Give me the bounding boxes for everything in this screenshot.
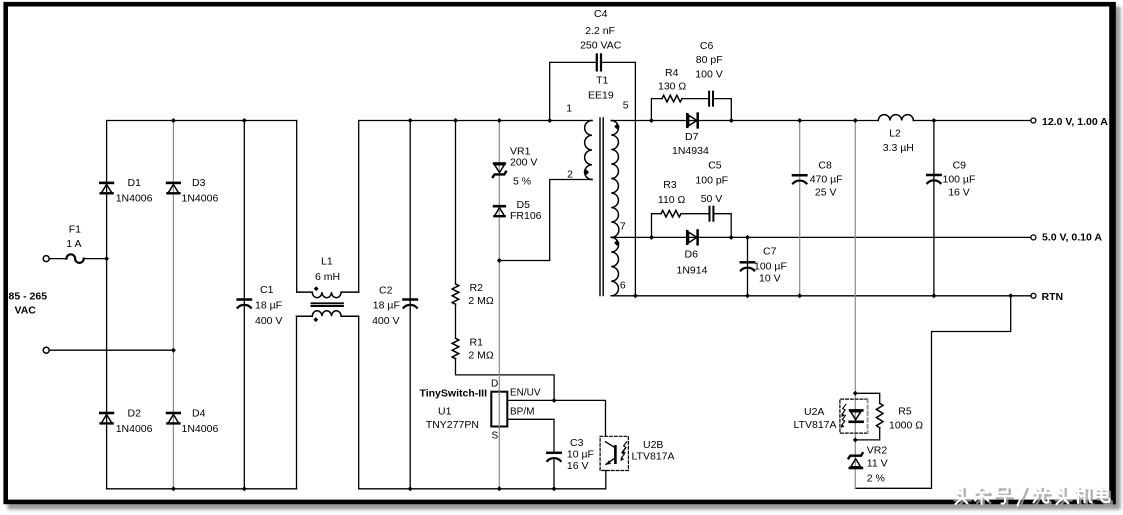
svg-text:250 VAC: 250 VAC: [580, 40, 622, 52]
node: RTN rail at C8: [797, 293, 802, 298]
zener VR1: [493, 164, 506, 178]
wire: EN/UV pin wire: [507, 400, 605, 436]
svg-text:2 MΩ: 2 MΩ: [468, 295, 494, 307]
svg-text:D: D: [491, 379, 498, 390]
wire: primary top rail right segment: [359, 120, 592, 122]
svg-text:VR2: VR2: [867, 445, 888, 457]
wire: RTN rail pin6 to terminal: [611, 295, 1031, 297]
svg-text:1N4006: 1N4006: [116, 193, 153, 205]
svg-text:1N4934: 1N4934: [672, 145, 709, 157]
wire: R5 bottom link: [855, 428, 879, 440]
svg-text:VAC: VAC: [15, 305, 37, 317]
wire: bottom rail segment B: [359, 488, 606, 490]
choke L1 core: [312, 303, 343, 306]
node: 5V rail at C7: [745, 235, 750, 240]
svg-text:C8: C8: [818, 160, 832, 172]
node: 12V rail at C8: [797, 118, 802, 123]
resistor R3: [661, 210, 681, 217]
wire: primary top rail left segment: [107, 120, 297, 122]
diode D4: [167, 413, 180, 423]
node: fuse to bridge: [104, 256, 109, 261]
wire: L1 left vertical bottom: [296, 316, 298, 489]
output terminal 12V: [1031, 118, 1036, 123]
wire: 12V rail L2 to terminal: [913, 120, 1031, 122]
svg-text:200 V: 200 V: [510, 157, 537, 169]
wire: R4 to C6 link: [682, 98, 708, 100]
transformer T1 core: [600, 118, 603, 296]
capacitor C3: [547, 453, 560, 461]
wire: C4 left leg: [550, 62, 596, 120]
svg-text:C6: C6: [700, 40, 714, 52]
svg-text:RTN: RTN: [1042, 291, 1064, 303]
node: clamp D5 bottom: [497, 258, 502, 263]
wire: L1 right vertical bottom: [358, 316, 360, 489]
svg-text:6 mH: 6 mH: [315, 271, 340, 283]
wire: input neutral to D3 D4 column: [49, 349, 173, 351]
svg-text:1000 Ω: 1000 Ω: [889, 420, 923, 432]
wire: D6 snubber loop: [652, 214, 662, 238]
diode D6: [687, 231, 697, 245]
svg-text:5.0 V, 0.10 A: 5.0 V, 0.10 A: [1042, 232, 1102, 244]
choke L1 polarity dots: [313, 286, 318, 322]
diode D7: [687, 114, 697, 128]
svg-text:10 V: 10 V: [759, 273, 781, 285]
svg-text:R1: R1: [470, 337, 484, 349]
svg-text:100 V: 100 V: [695, 69, 722, 81]
node: bottom rail at C2: [408, 486, 413, 491]
wire: D1 D2 column: [106, 121, 108, 489]
inductor L2: [878, 115, 913, 121]
resistor R2: [452, 284, 459, 304]
svg-text:R4: R4: [665, 67, 679, 79]
output terminal 5V: [1031, 235, 1036, 240]
svg-text:TNY277PN: TNY277PN: [426, 419, 479, 431]
optocoupler U2A LED: [850, 410, 863, 421]
IC U1 box: [491, 392, 507, 427]
optocoupler U2B light arrows: [621, 442, 627, 460]
node: RTN rail at C4: [633, 293, 638, 298]
choke L1 bottom winding: [297, 311, 359, 317]
svg-text:TinySwitch-III: TinySwitch-III: [420, 388, 488, 400]
resistor R1: [452, 338, 459, 358]
border frame right edge extra: [1109, 2, 1116, 504]
svg-text:5 %: 5 %: [513, 176, 531, 188]
svg-text:16 V: 16 V: [948, 187, 970, 199]
wire: R3 to C5 link: [682, 213, 708, 215]
svg-text:D2: D2: [128, 408, 142, 420]
node: 12V rail at D7 left: [649, 118, 654, 123]
svg-text:EN/UV: EN/UV: [510, 388, 541, 399]
wire: C3 bottom lead: [553, 460, 555, 489]
svg-text:25 V: 25 V: [815, 187, 837, 199]
svg-text:1N4006: 1N4006: [182, 193, 219, 205]
node: bottom rail at C3: [552, 486, 557, 491]
svg-text:18 µF: 18 µF: [373, 300, 400, 312]
wire: R1 bottom to EN/UV corner: [456, 359, 555, 401]
node: top rail at C4 pin1: [547, 118, 552, 123]
wire: U2A feedback column (gray): [854, 121, 856, 489]
wire: C1 column: [243, 121, 245, 489]
svg-text:BP/M: BP/M: [510, 407, 534, 418]
svg-text:LTV817A: LTV817A: [794, 419, 837, 431]
node: 12V rail at D7 right: [729, 118, 734, 123]
svg-text:R5: R5: [898, 406, 912, 418]
choke L1 top winding: [297, 292, 359, 298]
svg-text:10 µF: 10 µF: [567, 449, 594, 461]
svg-text:C1: C1: [260, 284, 274, 296]
svg-text:U2B: U2B: [643, 439, 663, 451]
input terminal top: [43, 256, 49, 262]
svg-text:1N4006: 1N4006: [116, 423, 153, 435]
node: EN/UV junction: [552, 398, 557, 403]
optocoupler U2A dashed box: [840, 399, 868, 433]
wire: VR1 D5 U1 column (gray): [498, 121, 500, 489]
svg-text:U1: U1: [438, 406, 452, 418]
wire: L1 right vertical top: [358, 121, 360, 293]
wire: C7 column: [747, 237, 749, 295]
input terminal bottom: [43, 347, 49, 353]
svg-text:85 - 265: 85 - 265: [9, 291, 48, 303]
svg-text:LTV817A: LTV817A: [632, 451, 675, 463]
svg-text:D6: D6: [685, 249, 699, 261]
svg-text:C4: C4: [594, 8, 608, 20]
node: 5V rail at D6 right: [729, 235, 734, 240]
watermark 头条号 / 光头机电: [953, 487, 1112, 508]
svg-text:2 MΩ: 2 MΩ: [468, 350, 494, 362]
svg-text:D1: D1: [128, 177, 142, 189]
wire: C2 column: [409, 121, 411, 489]
capacitor C7: [741, 262, 754, 270]
svg-text:100 pF: 100 pF: [695, 175, 728, 187]
wire: C4 right leg down to RTN: [602, 62, 636, 295]
svg-text:100 µF: 100 µF: [943, 174, 976, 186]
wire: L1 left vertical top: [296, 121, 298, 293]
transformer T1 secondary winding upper: [611, 121, 619, 238]
capacitor C5: [710, 207, 714, 221]
diode D5: [494, 206, 505, 216]
svg-text:C5: C5: [708, 160, 722, 172]
node: RTN rail at feedback: [1008, 293, 1013, 298]
wire: feedback return path: [855, 296, 1010, 489]
optocoupler U2B dashed box: [600, 436, 628, 470]
svg-text:L1: L1: [321, 256, 333, 268]
svg-text:D7: D7: [685, 131, 699, 143]
svg-text:2.2 nF: 2.2 nF: [585, 25, 615, 37]
svg-text:T1: T1: [596, 75, 608, 87]
svg-text:C9: C9: [953, 160, 967, 172]
svg-text:6: 6: [620, 280, 626, 292]
fuse F1: [67, 254, 84, 263]
wire: 5V rail pin7 to terminal: [611, 236, 1031, 238]
capacitor C2: [404, 300, 417, 308]
optocoupler U2B phototransistor: [606, 442, 616, 465]
svg-text:130 Ω: 130 Ω: [658, 81, 686, 93]
wire: C9 column: [933, 121, 935, 296]
wire: fuse F1 lead right: [84, 258, 107, 260]
node: bottom rail at U1 source: [497, 486, 502, 491]
svg-text:100 µF: 100 µF: [754, 261, 787, 273]
wire: fuse F1 lead left: [50, 258, 67, 260]
svg-text:3.3 µH: 3.3 µH: [883, 142, 914, 154]
wire: U2B emitter to bottom rail: [605, 471, 607, 489]
svg-text:2: 2: [567, 169, 573, 181]
node: 5V rail at D6 left: [649, 235, 654, 240]
wire: 12V rail pin5 to L2: [611, 120, 878, 122]
svg-text:S: S: [492, 431, 499, 442]
node: bottom rail at C1: [242, 486, 247, 491]
node: U2A bottom: [853, 437, 858, 442]
wire: C5 to corner: [714, 214, 731, 238]
capacitor C1: [238, 300, 251, 308]
capacitor C4: [597, 54, 601, 70]
output terminal RTN: [1031, 293, 1036, 298]
svg-text:1N914: 1N914: [677, 265, 708, 277]
svg-text:400 V: 400 V: [372, 315, 399, 327]
svg-text:D4: D4: [192, 408, 206, 420]
optocoupler U2A light arrows: [842, 404, 846, 427]
svg-text:1N4006: 1N4006: [182, 423, 219, 435]
svg-text:110 Ω: 110 Ω: [658, 194, 686, 206]
wire: BP/M pin wire: [507, 419, 554, 451]
svg-text:D3: D3: [192, 177, 206, 189]
diode D2: [100, 413, 113, 423]
svg-text:400 V: 400 V: [255, 315, 282, 327]
svg-text:F1: F1: [69, 224, 81, 236]
wire: C6 to corner: [714, 99, 731, 121]
capacitor C8: [793, 175, 806, 183]
wire: D7 snubber loop: [651, 99, 662, 121]
resistor R4: [662, 95, 682, 102]
svg-text:5: 5: [623, 100, 629, 112]
node: U2A top: [853, 391, 858, 396]
svg-text:50 V: 50 V: [701, 193, 723, 205]
svg-text:FR106: FR106: [510, 210, 542, 222]
svg-text:C2: C2: [379, 285, 393, 297]
svg-text:C3: C3: [570, 437, 584, 449]
capacitor C6: [709, 92, 713, 106]
svg-text:2 %: 2 %: [867, 473, 885, 485]
svg-text:C7: C7: [763, 246, 777, 258]
wire: bottom rail segment A: [107, 488, 297, 490]
wire: pin2 jog to clamp: [499, 180, 592, 261]
svg-text:16 V: 16 V: [567, 460, 589, 472]
node: top rail at R2: [453, 118, 458, 123]
node: RTN rail at C7: [745, 293, 750, 298]
wire: C8 column (gray): [799, 121, 801, 296]
transformer T1 primary winding: [585, 121, 592, 180]
svg-text:R2: R2: [470, 282, 484, 294]
zener VR2: [849, 453, 863, 468]
svg-text:EE19: EE19: [588, 90, 614, 102]
svg-text:U2A: U2A: [804, 406, 824, 418]
transformer polarity dots: [584, 124, 620, 246]
svg-text:80 pF: 80 pF: [696, 54, 723, 66]
wire: R5 branch: [855, 393, 879, 403]
svg-text:11 V: 11 V: [867, 458, 888, 470]
node: top rail at C2: [408, 118, 413, 123]
svg-text:470 µF: 470 µF: [810, 174, 843, 186]
svg-text:7: 7: [620, 221, 626, 233]
node: 12V rail at C9: [931, 118, 936, 123]
node: 12V rail at U2A column: [853, 118, 858, 123]
capacitor C9: [927, 175, 940, 183]
svg-text:1: 1: [566, 103, 572, 115]
wire: R2 to R1 link: [455, 304, 457, 338]
resistor R5: [876, 403, 883, 427]
diode D3: [167, 183, 180, 193]
node: RTN rail at C9: [931, 293, 936, 298]
node: top rail at D3: [171, 118, 176, 123]
diode D1: [100, 183, 113, 193]
node: top rail at C1: [242, 118, 247, 123]
svg-text:L2: L2: [889, 128, 901, 140]
svg-text:18 µF: 18 µF: [255, 300, 282, 312]
svg-text:1 A: 1 A: [66, 238, 81, 250]
wire: D3 D4 column (gray): [172, 121, 174, 489]
svg-text:12.0 V, 1.00 A: 12.0 V, 1.00 A: [1042, 116, 1108, 128]
node: bottom rail at D4: [171, 486, 176, 491]
wire: R2 R1 column: [455, 121, 457, 284]
wire: U1 drain stub (gray overdraw): [498, 392, 500, 427]
node: neutral at D3 D4: [171, 348, 176, 353]
transformer T1 secondary winding lower: [611, 237, 618, 295]
node: top rail at VR1: [497, 118, 502, 123]
svg-text:R3: R3: [663, 179, 677, 191]
